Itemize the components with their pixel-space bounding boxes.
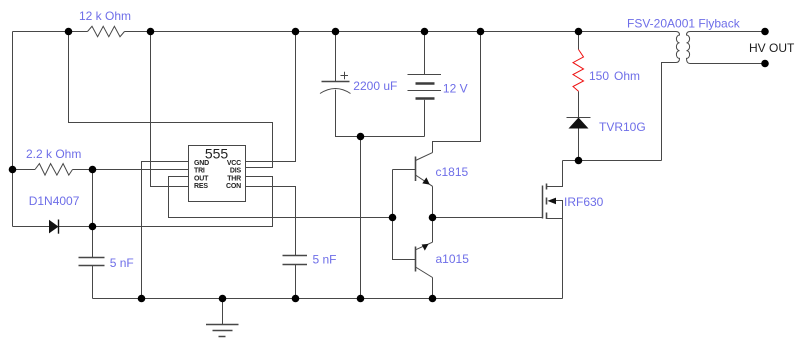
svg-text:5 nF: 5 nF [110, 256, 134, 270]
svg-text:CON: CON [226, 183, 241, 190]
svg-text:THR: THR [227, 175, 241, 182]
svg-text:12 V: 12 V [443, 81, 468, 95]
svg-text:Ohm: Ohm [614, 69, 640, 83]
svg-text:DIS: DIS [230, 167, 242, 174]
svg-text:2.2 k Ohm: 2.2 k Ohm [26, 147, 81, 161]
svg-text:D1N4007: D1N4007 [29, 194, 80, 208]
svg-text:2200 uF: 2200 uF [353, 79, 397, 93]
svg-text:OUT: OUT [194, 175, 209, 182]
svg-text:12 k Ohm: 12 k Ohm [79, 9, 131, 23]
svg-text:150: 150 [589, 69, 609, 83]
svg-text:HV OUT: HV OUT [749, 41, 795, 55]
svg-text:IRF630: IRF630 [564, 195, 604, 209]
svg-text:GND: GND [194, 160, 209, 167]
svg-text:VCC: VCC [227, 160, 241, 167]
svg-text:TVR10G: TVR10G [599, 120, 646, 134]
svg-text:5 nF: 5 nF [313, 252, 337, 266]
svg-text:a1015: a1015 [436, 252, 470, 266]
svg-text:TRI: TRI [194, 167, 205, 174]
svg-text:c1815: c1815 [436, 165, 469, 179]
svg-text:FSV-20A001 Flyback: FSV-20A001 Flyback [627, 16, 741, 30]
svg-text:RES: RES [194, 183, 208, 190]
